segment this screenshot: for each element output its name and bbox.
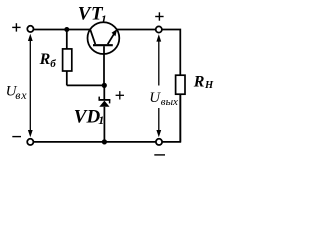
svg-text:Н: Н — [204, 80, 214, 91]
voltage arrow U_vyx upper part with up arrowhead — [156, 34, 161, 85]
svg-text:VD: VD — [74, 106, 101, 127]
label - (input bottom) — [12, 136, 21, 138]
label + (zener cathode) — [116, 91, 124, 99]
label - (output bottom) — [154, 154, 165, 156]
wire bottom rail left segment — [33, 141, 155, 143]
terminal input - (bottom-left) — [27, 139, 33, 145]
svg-text:вх: вх — [15, 88, 27, 102]
wire bottom rail right segment to RH corner — [162, 94, 180, 142]
svg-text:1: 1 — [101, 12, 107, 26]
label RH — [193, 74, 214, 91]
svg-text:вых: вых — [161, 96, 178, 108]
transistor VT1 — [88, 22, 120, 85]
wire top rail left segment — [34, 29, 91, 31]
svg-text:б: б — [50, 58, 56, 70]
resistor RH — [176, 75, 185, 142]
voltage arrow U_vyx lower part with down arrowhead — [156, 108, 161, 137]
svg-text:U: U — [149, 90, 161, 106]
wire Rb bottom to base node — [67, 84, 105, 86]
wire top rail right segment with corner down to RH — [117, 30, 180, 76]
label VD1 — [74, 106, 104, 127]
node: junction dot zener on bottom rail — [102, 139, 107, 144]
label VT1 — [78, 4, 107, 26]
voltage arrow U_vx (double-headed, between input terminals) — [28, 34, 33, 138]
terminal output + (top-right) — [156, 26, 162, 32]
node: junction dot Rb top on rail — [64, 27, 69, 32]
label + (input top) — [12, 23, 20, 31]
label U_vx — [6, 83, 28, 102]
label U_vyx — [149, 90, 178, 108]
svg-text:R: R — [39, 51, 51, 68]
zener diode VD1 — [99, 85, 111, 141]
resistor Rb — [63, 30, 72, 86]
terminal input + (top-left) — [27, 26, 33, 32]
terminal output - (bottom-right) — [156, 139, 162, 145]
label + (output top) — [155, 12, 163, 20]
label Rb — [39, 51, 57, 70]
node: junction dot base/zener — [102, 83, 107, 88]
svg-text:R: R — [193, 74, 205, 91]
svg-text:1: 1 — [98, 113, 104, 127]
